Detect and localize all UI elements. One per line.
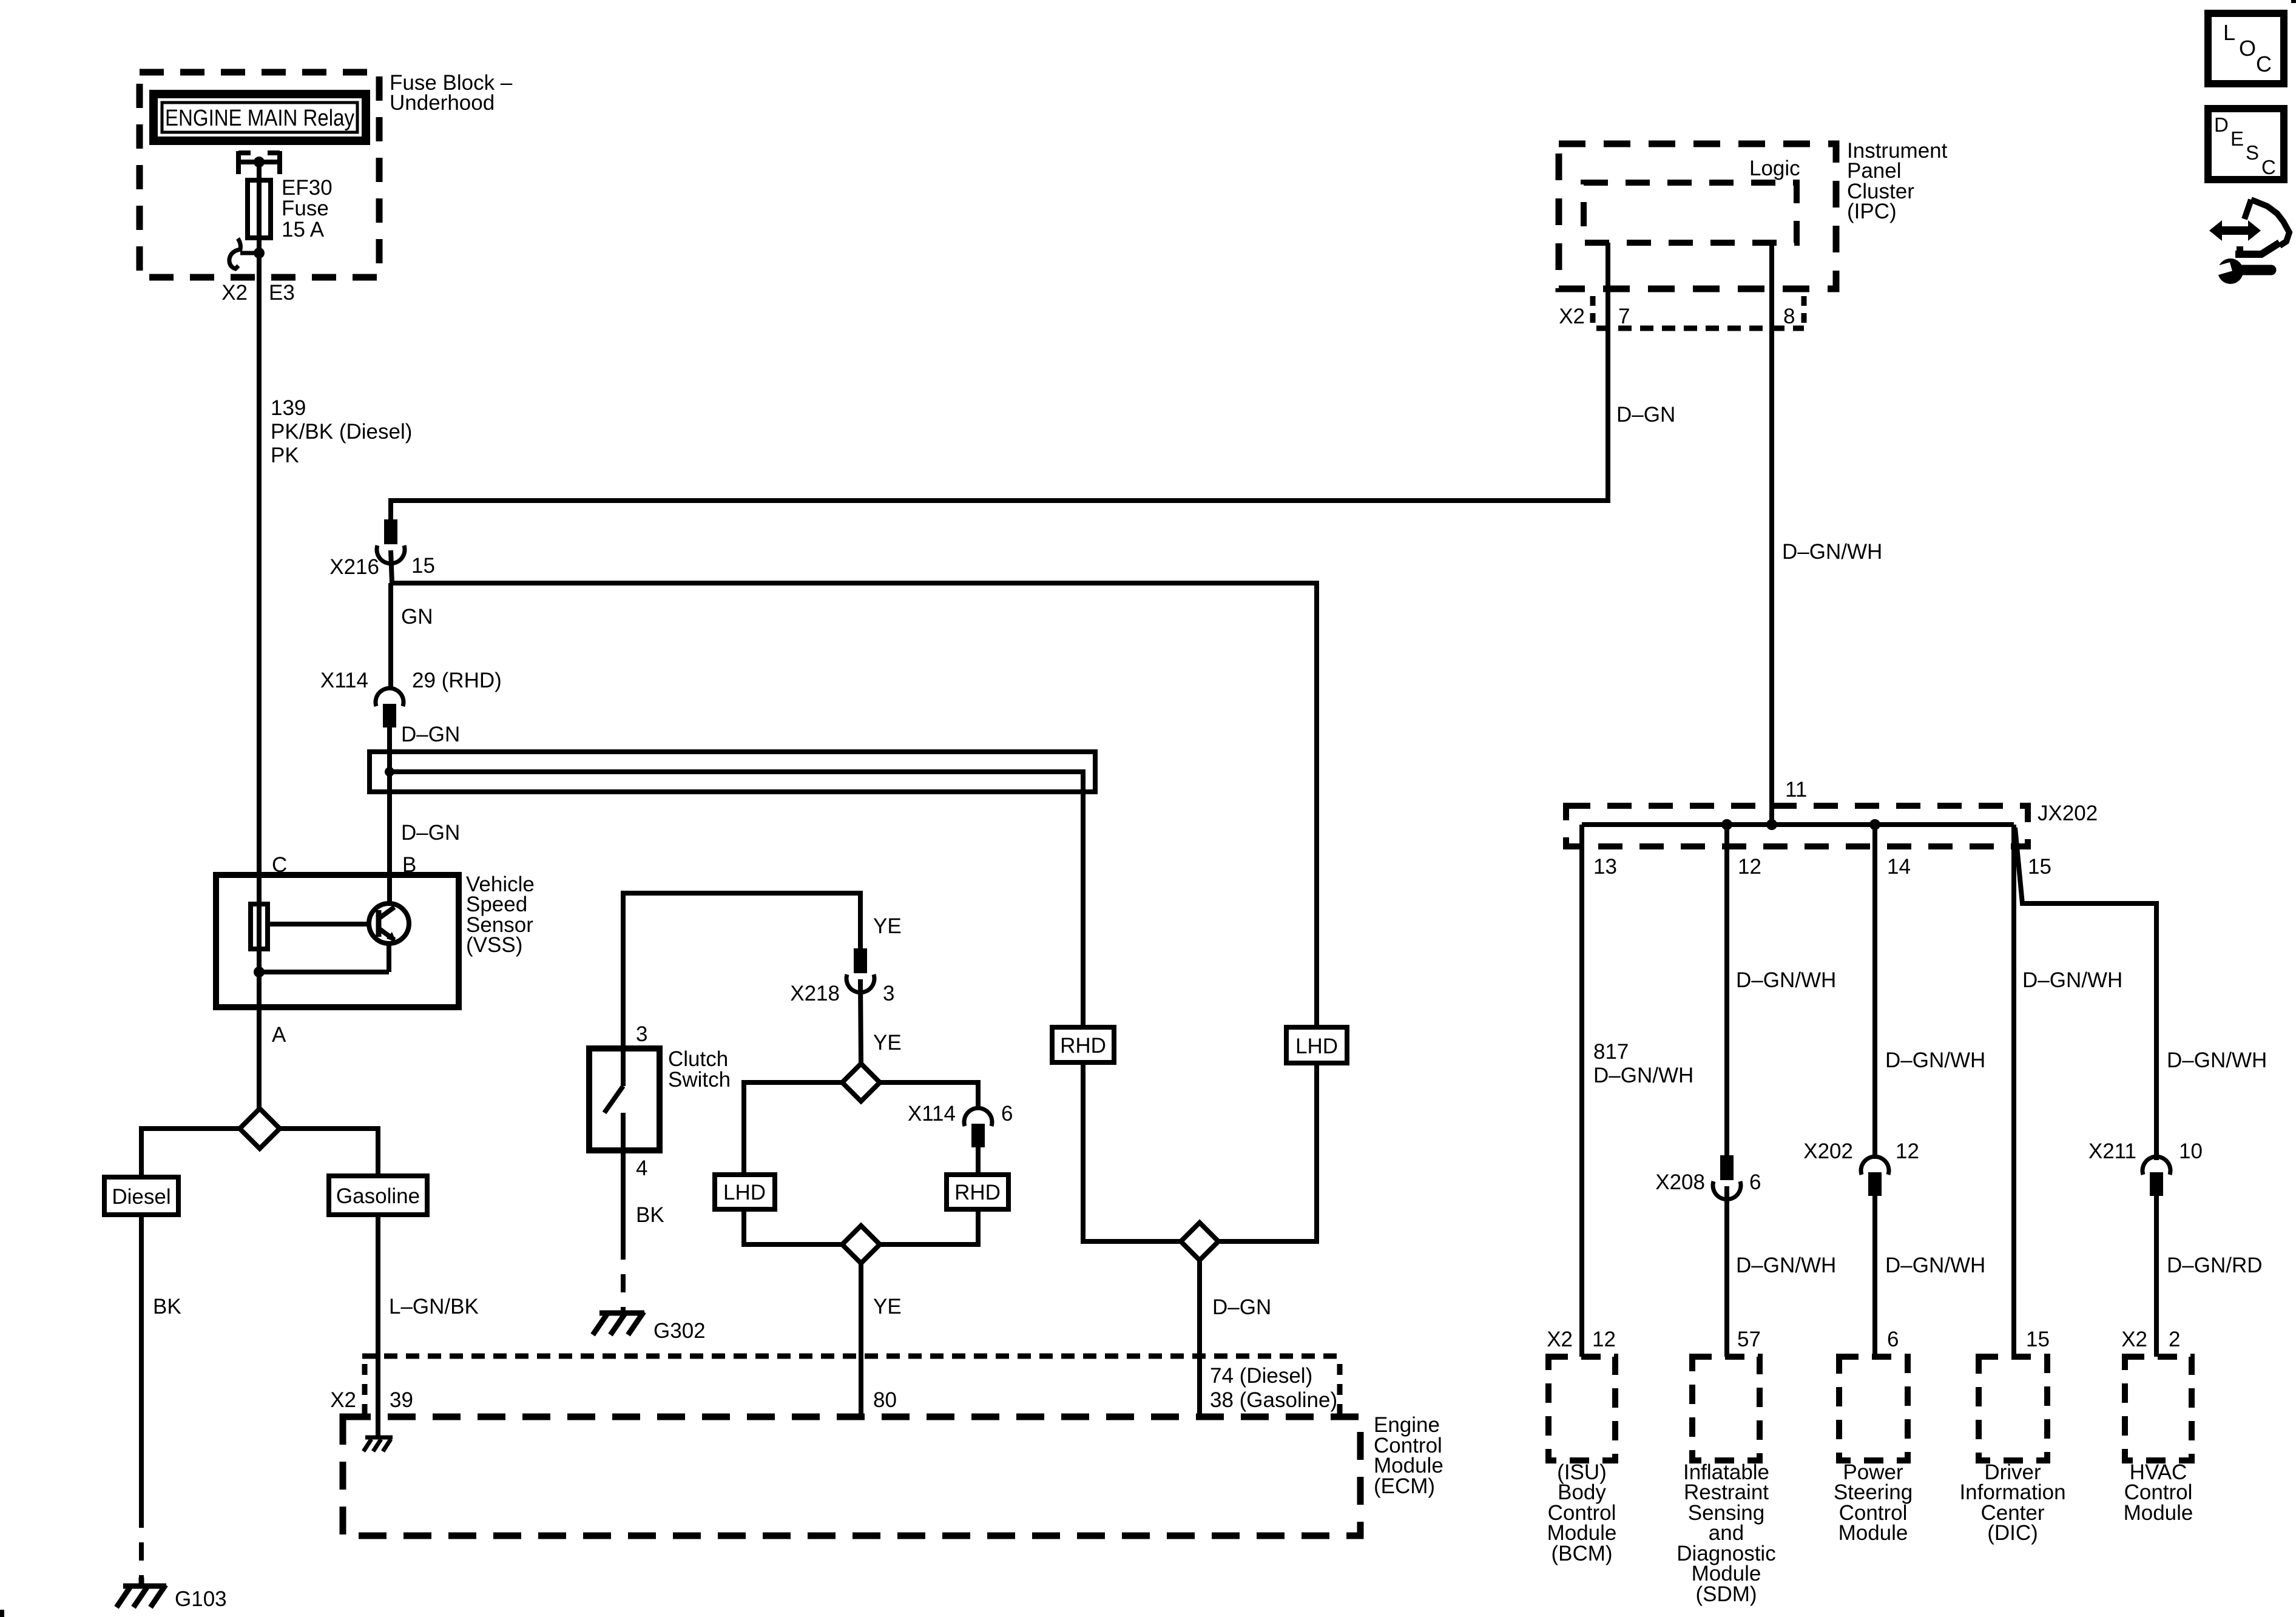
svg-text:X218: X218: [790, 982, 840, 1005]
svg-text:15: 15: [411, 554, 435, 578]
SDM dashed box: [1692, 1357, 1760, 1460]
HVAC control module dashed box: [2125, 1357, 2192, 1460]
label HVAC Control Module: [2124, 1460, 2193, 1525]
svg-text:D–GN/WH: D–GN/WH: [2167, 1048, 2267, 1072]
svg-text:X2: X2: [330, 1388, 356, 1412]
svg-text:139: 139: [271, 396, 306, 420]
svg-text:Switch: Switch: [668, 1068, 731, 1092]
icon DESC box: [2208, 109, 2284, 180]
svg-text:Gasoline: Gasoline: [336, 1184, 420, 1208]
svg-text:D–GN/WH: D–GN/WH: [1885, 1048, 1985, 1072]
svg-text:13: 13: [1593, 855, 1617, 879]
LHD upper option box: [1286, 1027, 1347, 1063]
svg-text:BK: BK: [153, 1295, 181, 1318]
label D-GN to ECM: [1212, 1295, 1271, 1319]
svg-text:D–GN/WH: D–GN/WH: [2022, 968, 2122, 992]
label X114 29 (RHD): [320, 669, 502, 692]
connector X211 10: [2142, 1156, 2170, 1357]
svg-text:X114: X114: [908, 1102, 956, 1126]
svg-text:X2: X2: [1547, 1328, 1573, 1351]
wire lower diamond to ECM pin 80: [859, 1263, 863, 1417]
svg-text:LHD: LHD: [1295, 1035, 1338, 1058]
label D-GN/WH branch14: [1885, 1048, 1985, 1072]
IPC connector strip X2: [1593, 296, 1804, 328]
label Engine Control Module (ECM): [1374, 1413, 1443, 1498]
power steering control module dashed box: [1839, 1357, 1908, 1460]
label D-GN/RD to HVAC: [2167, 1254, 2263, 1277]
svg-text:PK/BK (Diesel): PK/BK (Diesel): [271, 420, 412, 444]
svg-text:D–GN/WH: D–GN/WH: [1736, 968, 1836, 992]
label 11: [1785, 778, 1807, 802]
svg-text:15 A: 15 A: [282, 218, 325, 241]
label D-GN/WH to PSCM: [1885, 1254, 1985, 1277]
svg-text:D–GN/WH: D–GN/WH: [1885, 1254, 1985, 1277]
label YE below X218: [873, 1031, 902, 1055]
svg-text:D–GN/WH: D–GN/WH: [1593, 1064, 1693, 1087]
wire splice to Diesel: [141, 1129, 240, 1177]
connector X216 15: [377, 522, 405, 583]
svg-text:Underhood: Underhood: [390, 91, 495, 115]
vehicle speed sensor VSS box: [216, 875, 459, 1007]
Gasoline option box: [329, 1176, 427, 1215]
svg-text:10: 10: [2179, 1139, 2203, 1163]
shield box option run: [370, 752, 1095, 792]
label X114 6: [908, 1102, 1013, 1126]
label D-GN/WH pin8: [1782, 540, 1882, 564]
svg-text:D–GN: D–GN: [401, 821, 460, 845]
wire relay to fuse: [257, 163, 262, 180]
label Inflatable Restraint Sensing and Diagnostic Module (SDM): [1676, 1460, 1775, 1606]
page artifact bottom left: [0, 1610, 4, 1617]
wire fuse to VSS pin C: [257, 238, 262, 875]
wire branch 12 upper: [1724, 825, 1729, 1158]
svg-text:Module: Module: [1838, 1521, 1908, 1545]
label LHD upper: [1295, 1035, 1338, 1058]
splice diamond YE lower: [842, 1226, 880, 1263]
RHD mid option box: [947, 1175, 1008, 1209]
svg-text:Module: Module: [2124, 1501, 2193, 1525]
label X2 E3: [221, 281, 295, 305]
svg-text:80: 80: [873, 1388, 897, 1412]
svg-text:YE: YE: [873, 1295, 902, 1318]
splice diamond fuel select: [240, 1109, 280, 1149]
relay contact terminal symbol: [238, 151, 280, 174]
svg-text:D–GN/RD: D–GN/RD: [2167, 1254, 2263, 1277]
svg-text:C: C: [2256, 52, 2272, 76]
svg-text:L: L: [2223, 20, 2235, 45]
svg-text:D–GN: D–GN: [401, 723, 460, 746]
label X218 3: [790, 982, 894, 1005]
svg-text:X2: X2: [221, 281, 248, 305]
label LHD mid: [723, 1181, 766, 1204]
wire branch 13 to BCM: [1579, 825, 1584, 1357]
label A pin: [272, 1023, 286, 1047]
splice diamond D-GN: [1181, 1223, 1218, 1260]
svg-text:YE: YE: [873, 914, 902, 938]
driver information center DIC dashed box: [1979, 1357, 2047, 1460]
wire LHD upper to diamond: [1218, 1063, 1317, 1241]
wire shield to VSS pin B: [387, 792, 392, 903]
connector X208 6: [1713, 1158, 1741, 1357]
wire resistor to transistor base: [268, 922, 370, 927]
resistor in VSS: [251, 904, 268, 949]
svg-text:YE: YE: [873, 1031, 902, 1055]
label D-GN: [401, 723, 460, 746]
junction block JX202 dashed box: [1566, 806, 2028, 846]
svg-text:15: 15: [2026, 1328, 2050, 1351]
label 57 at SDM: [1737, 1328, 1761, 1351]
svg-text:6: 6: [1749, 1170, 1761, 1194]
svg-text:PK: PK: [271, 444, 299, 467]
wire shield to RHD upper to diamond: [1083, 792, 1181, 1241]
label BK clutch: [636, 1203, 664, 1227]
wire VSS internal emitter run: [254, 944, 389, 977]
label 139 PK/BK (Diesel) PK: [271, 396, 412, 467]
label Driver Information Center (DIC): [1959, 1460, 2065, 1545]
clutch switch wire pin 3 run: [623, 893, 860, 1048]
svg-text:3: 3: [636, 1022, 647, 1046]
label D-GN/WH branch15: [2022, 968, 2122, 992]
label YE to ECM: [873, 1295, 902, 1318]
splice diamond YE upper: [842, 1064, 880, 1101]
transistor Q in VSS: [369, 903, 409, 944]
label D-GN pin7: [1616, 403, 1675, 427]
svg-text:Diesel: Diesel: [112, 1185, 171, 1209]
svg-text:RHD: RHD: [1060, 1034, 1106, 1058]
svg-text:(SDM): (SDM): [1695, 1582, 1757, 1606]
label RHD mid: [954, 1181, 1001, 1204]
svg-text:X2: X2: [2121, 1328, 2147, 1351]
label X2 7 8 at IPC: [1559, 305, 1795, 328]
label D-GN/WH to X211: [2167, 1048, 2267, 1072]
connector X114 6: [964, 1108, 992, 1175]
ground in ECM at pin 39: [363, 1437, 393, 1451]
svg-text:E3: E3: [269, 281, 295, 305]
label 6 at PSCM: [1887, 1328, 1899, 1351]
RHD upper option box: [1052, 1027, 1114, 1062]
svg-text:6: 6: [1887, 1328, 1899, 1351]
svg-text:G103: G103: [175, 1587, 227, 1611]
svg-text:8: 8: [1783, 305, 1795, 328]
svg-text:D–GN: D–GN: [1616, 403, 1675, 427]
label YE above X218: [873, 914, 902, 938]
icon LOC box: [2208, 13, 2284, 84]
svg-text:RHD: RHD: [954, 1181, 1001, 1204]
instrument panel cluster IPC dashed box: [1559, 144, 1836, 289]
wire jog to HVAC branch: [2015, 828, 2156, 1160]
wire LHD mid to lower diamond: [744, 1209, 842, 1244]
logic dashed box: [1584, 183, 1797, 243]
ground G103: [116, 1578, 166, 1607]
label 14: [1887, 855, 1911, 879]
wire branch 14 upper: [1872, 825, 1877, 1159]
label X216 15: [329, 554, 435, 579]
svg-text:12: 12: [1592, 1328, 1616, 1351]
ground G302: [593, 1312, 644, 1335]
label Clutch Switch: [668, 1047, 731, 1092]
svg-text:(IPC): (IPC): [1847, 200, 1897, 223]
label G302: [653, 1319, 706, 1343]
svg-text:Logic: Logic: [1749, 157, 1800, 180]
wire RHD mid to lower diamond: [880, 1209, 978, 1244]
svg-text:38 (Gasoline): 38 (Gasoline): [1210, 1388, 1337, 1412]
svg-text:X202: X202: [1803, 1139, 1853, 1163]
connector X218 3: [846, 951, 874, 1064]
label Fuse Block - Underhood: [390, 71, 513, 115]
svg-text:L–GN/BK: L–GN/BK: [389, 1295, 479, 1318]
connector X202 12: [1861, 1156, 1889, 1357]
svg-text:S: S: [2246, 141, 2259, 164]
wire branch 15 to DIC: [2011, 825, 2016, 1357]
svg-text:74 (Diesel): 74 (Diesel): [1210, 1364, 1312, 1388]
label 3: [636, 1022, 647, 1046]
fuse EF30 15A: [248, 180, 271, 238]
wire splice to Gasoline: [280, 1129, 378, 1176]
label GN: [401, 605, 433, 629]
label C pin: [272, 853, 287, 877]
label D-GN/WH to SDM: [1736, 1254, 1836, 1277]
label Power Steering Control Module: [1834, 1460, 1913, 1545]
label 4: [636, 1156, 647, 1180]
label 12: [1738, 855, 1761, 879]
svg-text:12: 12: [1896, 1139, 1919, 1163]
label X2 12 at BCM: [1547, 1328, 1616, 1351]
label Diesel: [112, 1185, 171, 1209]
label 15: [2028, 855, 2051, 879]
svg-text:(DIC): (DIC): [1987, 1521, 2038, 1545]
label X2 2 at HVAC: [2121, 1328, 2180, 1351]
svg-text:817: 817: [1593, 1040, 1629, 1064]
label 80 at ECM: [873, 1388, 897, 1412]
svg-text:Fuse: Fuse: [282, 197, 329, 220]
svg-text:D–GN: D–GN: [1212, 1295, 1271, 1319]
svg-text:D–GN/WH: D–GN/WH: [1736, 1254, 1836, 1277]
svg-text:ENGINE MAIN Relay: ENGINE MAIN Relay: [165, 106, 354, 131]
label B pin: [402, 853, 416, 877]
wire diamond to ECM pin 74/38: [1197, 1260, 1202, 1420]
connector X114 29 (RHD): [376, 688, 403, 752]
label X211 10: [2088, 1139, 2203, 1163]
svg-text:57: 57: [1737, 1328, 1761, 1351]
svg-text:D–GN/WH: D–GN/WH: [1782, 540, 1882, 564]
bus bar in JX202: [1582, 819, 2014, 830]
svg-text:GN: GN: [401, 605, 433, 629]
svg-text:2: 2: [2169, 1328, 2180, 1351]
LHD mid option box: [715, 1175, 775, 1209]
svg-text:JX202: JX202: [2038, 802, 2098, 825]
svg-text:O: O: [2239, 36, 2256, 61]
body control module BCM dashed box: [1548, 1357, 1615, 1460]
svg-text:BK: BK: [636, 1203, 664, 1227]
label 15 at DIC: [2026, 1328, 2050, 1351]
label 817 D-GN/WH: [1593, 1040, 1693, 1087]
label G103: [175, 1587, 227, 1611]
wire diamond to LHD mid box: [744, 1082, 842, 1175]
svg-text:12: 12: [1738, 855, 1761, 879]
label BK diesel wire: [153, 1295, 181, 1318]
label Instrument Panel Cluster (IPC): [1847, 139, 1948, 223]
svg-text:X216: X216: [329, 555, 379, 579]
label JX202: [2038, 802, 2098, 825]
svg-text:G302: G302: [653, 1319, 706, 1343]
wire VSS pin A to splice: [257, 1007, 262, 1110]
svg-text:6: 6: [1001, 1102, 1013, 1126]
page artifact top right: [2291, 0, 2296, 3]
svg-text:14: 14: [1887, 855, 1911, 879]
label X208 6: [1655, 1170, 1761, 1194]
label RHD upper: [1060, 1034, 1106, 1058]
wire VSS pin C internal: [257, 875, 262, 1007]
wire IPC pin 8 to JX202: [1769, 243, 1774, 825]
svg-text:(BCM): (BCM): [1551, 1542, 1612, 1565]
label EF30 Fuse 15 A: [282, 176, 333, 241]
wire horizontal IPC pin 7 to X216: [391, 243, 1608, 522]
svg-text:C: C: [2261, 156, 2276, 178]
svg-text:X211: X211: [2088, 1139, 2136, 1163]
svg-text:E: E: [2230, 127, 2244, 150]
label 13: [1593, 855, 1617, 879]
engine control module ECM dashed box: [343, 1417, 1360, 1536]
svg-text:29 (RHD): 29 (RHD): [412, 669, 502, 692]
label L-GN/BK: [389, 1295, 479, 1318]
label D-GN below shield: [401, 821, 460, 845]
connector hook symbol at fuse output: [229, 238, 265, 269]
label Vehicle Speed Sensor (VSS): [466, 873, 535, 957]
relay K ENGINE MAIN Relay box: [154, 94, 366, 141]
svg-text:(VSS): (VSS): [466, 933, 522, 957]
label X2 39 at ECM: [330, 1388, 413, 1412]
svg-text:X114: X114: [320, 669, 368, 692]
label (ISU) Body Control Module (BCM): [1547, 1460, 1617, 1565]
svg-text:15: 15: [2028, 855, 2051, 879]
svg-text:LHD: LHD: [723, 1181, 766, 1204]
label X202 12: [1803, 1139, 1919, 1163]
label 74 38 at ECM: [1210, 1364, 1337, 1412]
label Logic: [1749, 157, 1800, 180]
wire clutch switch to G302: [621, 1150, 626, 1311]
svg-text:7: 7: [1618, 305, 1630, 328]
ECM connector strip: [362, 1356, 1340, 1414]
svg-text:3: 3: [883, 982, 894, 1005]
svg-text:4: 4: [636, 1156, 647, 1180]
label ENGINE MAIN Relay: [165, 106, 354, 131]
clutch switch box: [589, 1048, 660, 1150]
svg-text:A: A: [272, 1023, 286, 1047]
label D-GN/WH branch12: [1736, 968, 1836, 992]
wire X216 to X114: [388, 583, 393, 689]
label Gasoline: [336, 1184, 420, 1208]
wire Diesel to G103: [139, 1215, 144, 1578]
svg-text:39: 39: [390, 1388, 413, 1412]
svg-text:11: 11: [1785, 778, 1807, 802]
wire diamond to X114 6: [880, 1082, 978, 1109]
wire Gasoline to ECM pin 39: [376, 1215, 380, 1437]
svg-text:X208: X208: [1655, 1170, 1705, 1194]
svg-text:D: D: [2214, 113, 2229, 136]
svg-text:(ECM): (ECM): [1374, 1474, 1435, 1498]
wire X216 branch to LHD upper: [391, 583, 1317, 1027]
icon connector service arrow and wrench: [2209, 200, 2289, 284]
svg-text:X2: X2: [1559, 305, 1585, 328]
Diesel option box: [104, 1177, 178, 1215]
fuse block underhood dashed box: [140, 72, 379, 277]
